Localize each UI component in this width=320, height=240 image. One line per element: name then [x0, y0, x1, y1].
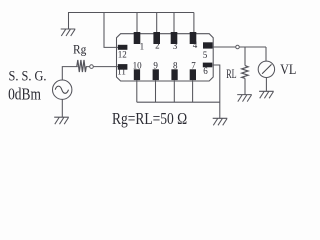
svg-text:3: 3: [173, 41, 178, 51]
pin 3 pad: [171, 32, 178, 44]
svg-text:S. S. G.: S. S. G.: [9, 69, 47, 85]
svg-text:10: 10: [133, 61, 143, 71]
pin 6 pad: [203, 63, 213, 68]
ground source: [54, 117, 69, 124]
voltmeter needle: [262, 64, 271, 73]
pin 4 pad: [190, 32, 197, 44]
filter body U1 outline: [117, 34, 214, 81]
svg-text:8: 8: [173, 61, 178, 71]
wire VL to ground: [265, 78, 267, 92]
wire pin 6 to bottom ground: [212, 65, 219, 118]
ground top-left: [61, 29, 76, 36]
wire RL branch: [244, 47, 246, 66]
wire top-left ground drop: [68, 12, 70, 29]
ground bottom bus: [213, 118, 228, 125]
pin 1 pad: [134, 32, 141, 44]
wire pin 2 to bus: [156, 13, 158, 34]
wire RL to ground: [244, 78, 246, 94]
svg-text:1: 1: [140, 42, 145, 52]
svg-text:4: 4: [193, 40, 198, 50]
svg-text:Rg=RL=50 Ω: Rg=RL=50 Ω: [112, 109, 187, 128]
svg-text:6: 6: [203, 66, 208, 76]
wire pin 8 drop: [173, 80, 175, 102]
svg-text:0dBm: 0dBm: [8, 85, 41, 104]
svg-text:12: 12: [118, 49, 127, 59]
wire pin 3 to bus: [173, 13, 175, 34]
svg-text:Rg: Rg: [73, 42, 87, 56]
wire pin 9 drop: [155, 80, 157, 102]
wire pin 10 drop: [136, 80, 138, 102]
source sine wave: [55, 86, 68, 93]
svg-text:2: 2: [155, 41, 160, 51]
pin 5 pad: [203, 42, 213, 48]
wire pin 1 to bus: [136, 13, 138, 34]
pin 10 pad: [134, 69, 140, 80]
pin 9 pad: [153, 69, 159, 80]
wire bottom ground bus: [137, 101, 220, 103]
pin 11 pad: [118, 64, 128, 70]
svg-text:VL: VL: [280, 62, 296, 78]
svg-text:5: 5: [203, 50, 208, 60]
node terminal after Rg: [90, 65, 94, 69]
svg-text:9: 9: [153, 61, 158, 71]
svg-text:11: 11: [117, 67, 126, 77]
ground RL: [237, 95, 252, 102]
resistor Rg zigzag: [77, 60, 87, 72]
node terminal after pin 5: [236, 45, 240, 49]
source V1 circle: [53, 80, 72, 99]
wire source to ground: [61, 99, 63, 117]
wire VL drop: [265, 47, 267, 61]
pin 2 pad: [153, 32, 160, 44]
voltmeter VL circle: [258, 61, 274, 77]
pin 7 pad: [190, 69, 196, 80]
pin 12 pad: [118, 45, 128, 50]
svg-text:7: 7: [191, 61, 196, 71]
wire top ground bus: [69, 12, 194, 14]
wire Rg to pin 11: [86, 66, 118, 68]
pin 8 pad: [171, 69, 177, 80]
resistor RL zigzag: [242, 66, 248, 79]
svg-text:RL: RL: [226, 67, 236, 81]
wire pin 4 to bus: [193, 13, 195, 34]
ground VL: [259, 91, 274, 98]
wire source to Rg line: [62, 67, 78, 80]
wire pin 5 output: [213, 46, 266, 48]
wire pin 7 drop: [192, 80, 194, 102]
wire bus to pin 12: [104, 13, 118, 48]
